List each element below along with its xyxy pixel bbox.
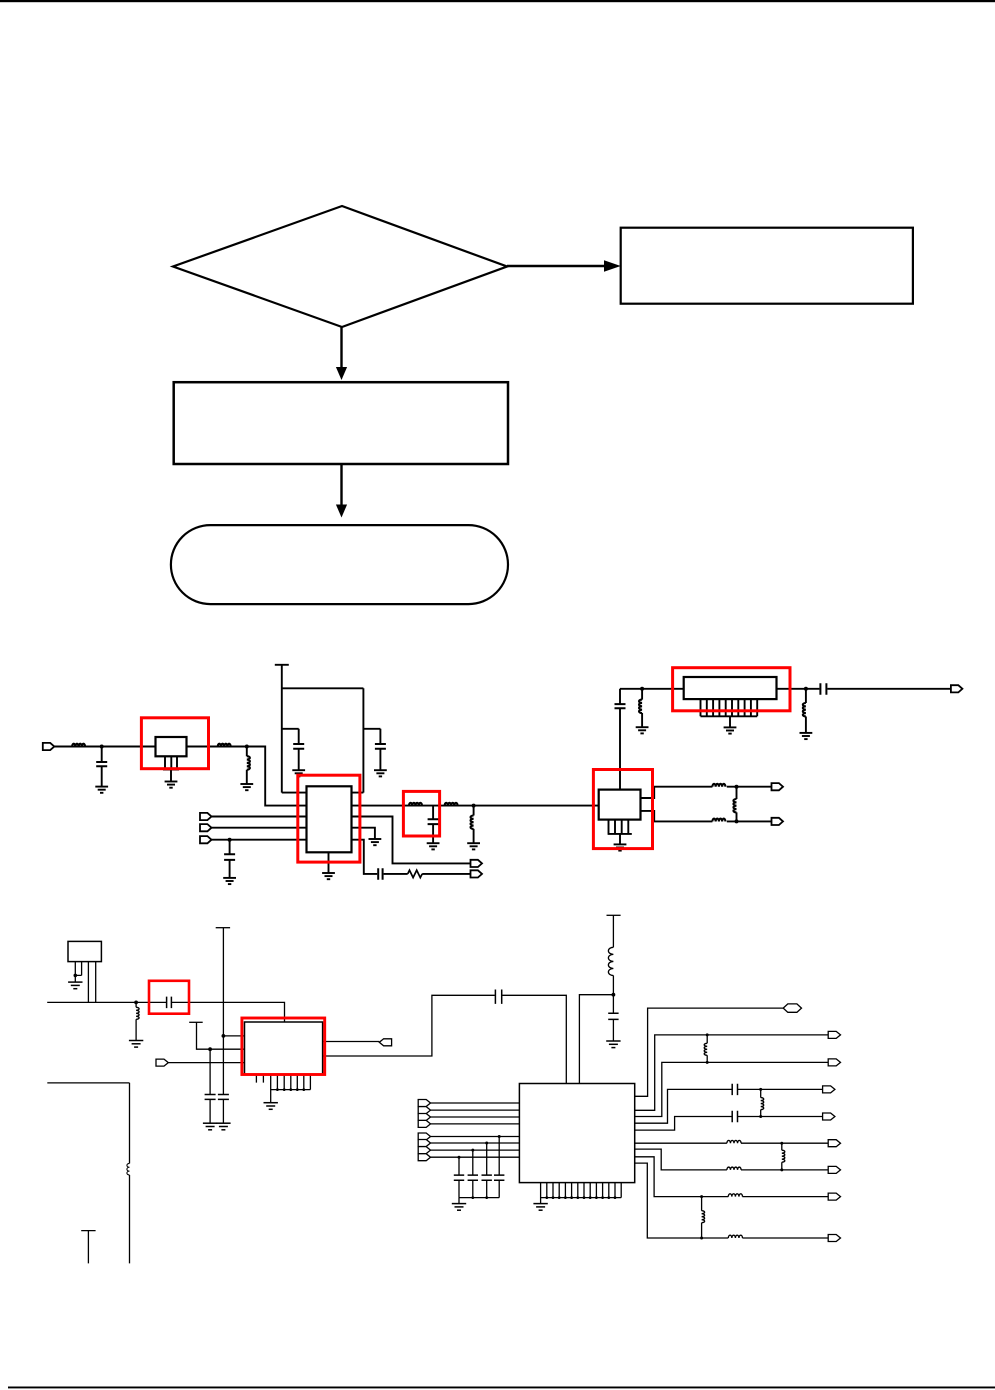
node dot L10 bottom: [735, 819, 739, 823]
capacitor C9 series: [495, 990, 501, 1004]
flowchart decision diamond: [173, 206, 507, 327]
capacitor C1: [96, 762, 107, 766]
ground (L6): [467, 843, 480, 849]
port PF: [828, 1140, 840, 1147]
node dot L3: [245, 745, 249, 749]
port P13: [418, 1107, 430, 1114]
node dot L14 bottom: [706, 1061, 709, 1064]
node dot L17 bottom: [780, 1168, 783, 1171]
inductor L1: [72, 744, 85, 747]
wire IC3 pinH: [635, 1157, 829, 1197]
wire IC2 gnd pins: [271, 1075, 311, 1103]
capacitor C8a: [205, 1095, 216, 1100]
top border bar: [0, 0, 995, 2]
wire port P10 to IC2: [169, 1062, 245, 1064]
inductor L6: [471, 816, 474, 829]
wire net B vertical: [209, 1049, 211, 1094]
capacitor C10: [494, 1175, 504, 1180]
ground (cap bank): [452, 1204, 466, 1211]
wire IC1 pin5 via C6 R1 to port P6: [352, 840, 471, 874]
capacitor C8b: [218, 1095, 229, 1100]
highlight box SAW FL1: [141, 718, 208, 769]
node dot L14 top: [706, 1033, 709, 1036]
inductor L15: [761, 1098, 764, 1110]
ground (L7): [636, 727, 649, 733]
port P3: [200, 824, 212, 831]
ground (C8a): [203, 1123, 217, 1130]
inductor L7: [639, 700, 642, 713]
wire IC3 pinB: [635, 1035, 829, 1110]
port PC: [828, 1059, 840, 1066]
wire C10 stems: [498, 1137, 500, 1198]
highlight box Q1: [593, 770, 652, 849]
port P5: [471, 860, 483, 867]
wire IC3 gnd pins: [541, 1183, 622, 1204]
node T-stub3: [81, 1231, 95, 1264]
wire bigbox outline: [47, 1083, 129, 1264]
wire IC1 pin3 to port P5: [352, 817, 471, 864]
ground (Q1): [614, 844, 627, 850]
node dot C2: [228, 838, 232, 842]
ground (C1): [95, 787, 108, 793]
transistor Q1 body: [599, 790, 641, 820]
node dot net A IC2: [222, 1034, 226, 1038]
flowchart process box middle: [174, 382, 508, 464]
capacitor C3: [428, 819, 439, 824]
wire C1 stem: [101, 747, 103, 787]
wire VCC3 branch to IC3: [579, 995, 613, 1084]
ground (L12): [129, 1041, 143, 1048]
capacitor C14 series: [732, 1084, 737, 1095]
node dots IC3 gnd bus: [545, 1196, 548, 1199]
port P10: [156, 1059, 168, 1066]
wire frame cap left stub: [282, 729, 299, 770]
wire cap bus gnd: [459, 1198, 499, 1204]
inductor L13 big coil: [608, 947, 613, 975]
wire L12 stem: [135, 1002, 137, 1040]
wire Q1 emitter comb: [608, 820, 632, 845]
wire L7 stem: [641, 689, 643, 727]
wire C11 stems: [486, 1143, 488, 1198]
wire Q1 out lower: [641, 811, 772, 822]
ground (IC1): [322, 873, 335, 879]
ground (filter): [724, 727, 737, 733]
wire IC3 pinI: [635, 1163, 829, 1238]
wire filter gnd pins: [701, 699, 758, 727]
capacitor C15 series: [732, 1111, 737, 1122]
node dot L12: [134, 1001, 138, 1005]
node dot net B: [208, 1047, 212, 1051]
port P14: [418, 1114, 430, 1121]
node dot L11: [804, 687, 808, 691]
node VCC2 T-bar: [216, 927, 230, 929]
ground (IC1 pin4): [369, 839, 382, 845]
port P1 input: [43, 743, 55, 750]
wire net A to IC2: [223, 1035, 244, 1037]
port P6: [471, 870, 483, 877]
port P7: [772, 783, 784, 790]
port P11 left-pointing: [379, 1039, 391, 1046]
port P15: [418, 1120, 430, 1127]
port PH: [828, 1193, 840, 1200]
inductor L12: [136, 1007, 139, 1019]
IC3 body: [519, 1084, 634, 1183]
wire main bus right: [172, 1002, 285, 1022]
port P8: [772, 818, 784, 825]
wire IC1 pin4 to gnd: [352, 828, 375, 839]
node dots cap lines: [498, 1135, 501, 1138]
wire tall vertical net A: [222, 928, 224, 1095]
capacitor C frame left: [293, 744, 304, 749]
node VCC3 T-bar: [607, 914, 621, 916]
wire IC3 pinE with C15: [635, 1117, 823, 1131]
port PI: [828, 1235, 840, 1242]
inductor L5: [445, 803, 458, 806]
wire L15 shunt stems: [760, 1089, 762, 1116]
port P16: [418, 1133, 430, 1140]
port P18: [418, 1147, 430, 1154]
wire IC3 pinG: [635, 1149, 829, 1170]
inductor L16 bigbox coil: [127, 1163, 130, 1175]
ground (L3): [240, 784, 253, 790]
port P4: [200, 836, 212, 843]
SAW filter FL1 body: [156, 737, 187, 756]
wire IC3 pinF: [635, 1142, 829, 1144]
ground (frame cap right): [374, 770, 387, 776]
node dot L15 top: [759, 1088, 762, 1091]
wire IC3 pinA to hex port: [635, 1008, 784, 1096]
ground (C16): [606, 1041, 620, 1048]
wire main bus left: [47, 1001, 166, 1003]
capacitor C16 at L13: [608, 1013, 618, 1019]
capacitor C frame right: [375, 744, 386, 749]
node dot L15 bottom: [759, 1115, 762, 1118]
node VCC T-bar: [275, 664, 289, 666]
node T-stub2: [189, 1021, 203, 1023]
inductor L10: [733, 799, 736, 812]
node dot L20 top: [700, 1195, 703, 1198]
wire IC1 gnd stem: [328, 852, 330, 873]
wire Q1 out upper: [641, 787, 772, 798]
node dots IC2 gnd bus: [276, 1088, 279, 1091]
wire collector top to filter: [620, 688, 684, 690]
wire C12 stems: [472, 1150, 474, 1198]
node dot L17 top: [780, 1142, 783, 1145]
highlight box FL2: [673, 668, 790, 711]
wire L14 shunt stems: [706, 1035, 708, 1063]
port P9 output: [951, 685, 963, 692]
port PE: [823, 1113, 835, 1120]
wire IC3 pinC: [635, 1062, 829, 1116]
ground (L11): [800, 733, 813, 739]
inductor L17: [782, 1150, 785, 1162]
capacitor C2: [224, 854, 235, 860]
wire supply frame: [282, 665, 364, 793]
wire frame cap right stub: [363, 729, 380, 770]
capacitor C7 series: [167, 997, 172, 1009]
wire IC3 left port lines: [430, 1103, 519, 1157]
wire C13 stems: [458, 1157, 460, 1197]
wire IC1 out long: [352, 805, 599, 807]
crystal X1 gnd pins: [75, 962, 81, 983]
wire T-stub2 to IC2: [197, 1022, 245, 1049]
highlight box L4 C3: [403, 791, 439, 836]
wire IC2 out pin1: [323, 1041, 380, 1043]
port P2: [200, 813, 212, 820]
capacitor C5 series: [820, 683, 826, 695]
flowchart arrow down 2: [336, 464, 347, 518]
flowchart process box right: [621, 228, 913, 304]
ground (C2): [223, 878, 236, 884]
amplifier IC1 body: [307, 786, 352, 852]
bottom border line: [8, 1387, 995, 1389]
highlight box IC1: [298, 775, 360, 862]
wire filter out to port P9: [777, 688, 951, 690]
wire input to SAW1: [54, 746, 156, 748]
wire L11 stem: [805, 689, 807, 733]
wire L3 stem: [246, 747, 248, 785]
node dot L20 bottom: [700, 1237, 703, 1240]
capacitor C12: [468, 1175, 478, 1180]
node dot L10 top: [735, 785, 739, 789]
inductor L3: [247, 756, 250, 769]
port PG: [828, 1166, 840, 1173]
wire port P2 to IC1: [212, 816, 307, 818]
inductor L8: [712, 784, 725, 787]
wire IC2 out pin2 to IC3: [323, 995, 567, 1083]
wire L10 shunt stems: [736, 787, 738, 822]
inductor L22 on line I: [728, 1235, 742, 1238]
port P19: [418, 1154, 430, 1161]
wire L13 net: [612, 915, 614, 1041]
node dot L7: [640, 687, 644, 691]
inductor L9: [712, 819, 725, 822]
wire Q1 collector riser with C4: [619, 689, 621, 790]
wire C3 stem: [432, 806, 434, 844]
wire C8a stem: [209, 1099, 211, 1123]
wire crystal X1 pins to bus: [88, 962, 95, 1003]
node dot crystal gnd: [74, 974, 78, 978]
inductor L4: [409, 803, 422, 806]
highlight box IC2: [242, 1018, 325, 1075]
resistor R1: [408, 870, 423, 877]
wire L6 stem: [473, 806, 475, 844]
crystal X1 body: [68, 941, 101, 961]
ground (IC3): [533, 1204, 547, 1211]
capacitor C6 series: [378, 868, 382, 880]
inductor L20: [702, 1211, 705, 1223]
highlight box C7: [149, 981, 189, 1014]
capacitor C13: [454, 1175, 464, 1180]
wire port P3 to IC1: [212, 827, 307, 829]
node dot VCC3 branch: [612, 993, 616, 997]
wire port P4 to IC1: [212, 840, 307, 878]
wire SAW1 gnd pins: [163, 756, 179, 781]
IC2 body: [245, 1022, 323, 1074]
inductor L21 on line H: [728, 1194, 742, 1197]
port PD: [823, 1086, 835, 1093]
wire IC3 pinD with C14: [635, 1089, 823, 1123]
flowchart arrow down 1: [336, 327, 347, 380]
port P17: [418, 1140, 430, 1147]
flowchart terminator stadium: [171, 525, 508, 604]
ground (crystal): [68, 982, 82, 989]
inductor L2: [218, 744, 231, 747]
ground (IC2): [264, 1103, 278, 1110]
capacitor C4: [615, 704, 626, 708]
capacitor C11: [482, 1175, 492, 1180]
node dot C1: [100, 745, 104, 749]
wire C8b stem: [222, 1099, 224, 1123]
node dot L6: [472, 804, 476, 808]
ground (C3): [427, 843, 440, 849]
ground (SAW1): [165, 782, 178, 788]
port PA hexagonal: [783, 1004, 801, 1012]
ground (C8b): [216, 1123, 230, 1130]
inductor L19 on line G: [727, 1167, 741, 1170]
SAW filter FL2 body: [684, 677, 777, 699]
inductor L11: [803, 703, 806, 716]
node dots cap bus: [471, 1196, 474, 1199]
flowchart arrow right: [507, 260, 621, 272]
wire SAW1 out to IC1 pin: [187, 747, 307, 806]
inductor L14: [704, 1043, 707, 1055]
inductor L18 on line F: [727, 1140, 741, 1143]
port P12: [418, 1100, 430, 1107]
wire L17 shunt stems: [781, 1143, 783, 1170]
wire L20 shunt stems: [701, 1197, 703, 1238]
port PB: [828, 1031, 840, 1038]
wire IC2 bottom stubs: [256, 1075, 263, 1083]
ground (frame cap left): [292, 770, 305, 776]
